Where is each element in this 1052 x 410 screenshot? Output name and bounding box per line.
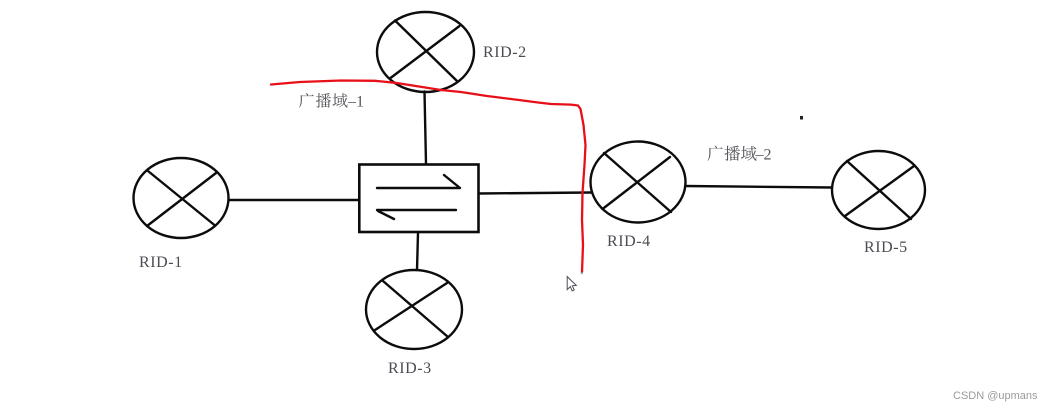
router RID-3 symbol xyxy=(366,270,462,349)
label broadcast domain 1 xyxy=(299,93,364,110)
wire SW1 to RID-4 xyxy=(479,193,592,194)
svg-text:RID-2: RID-2 xyxy=(483,44,527,61)
switch SW1 box xyxy=(359,165,478,233)
red broadcast-domain boundary line xyxy=(271,81,586,273)
svg-text:–1: –1 xyxy=(347,94,364,111)
svg-text:RID-5: RID-5 xyxy=(864,239,908,256)
router RID-1 symbol xyxy=(134,158,229,238)
wire RID-1 to SW1 xyxy=(229,199,359,201)
stray ink dot xyxy=(800,116,803,120)
wire RID-2 to SW1 xyxy=(425,92,427,165)
svg-text:RID-4: RID-4 xyxy=(607,233,651,250)
wire RID-4 to RID-5 xyxy=(685,186,832,188)
router RID-2 symbol xyxy=(377,12,474,92)
label broadcast domain 2 xyxy=(707,146,771,164)
mouse cursor xyxy=(567,277,576,291)
svg-text:CSDN @upmans: CSDN @upmans xyxy=(953,390,1038,402)
wire SW1 to RID-3 xyxy=(417,233,418,270)
svg-text:–2: –2 xyxy=(755,147,772,164)
red line end artifact xyxy=(581,273,584,275)
router RID-4 symbol xyxy=(591,142,686,223)
switch SW1 right arrow xyxy=(377,175,460,188)
svg-text:RID-3: RID-3 xyxy=(388,360,432,377)
router RID-5 symbol xyxy=(832,151,925,229)
svg-text:RID-1: RID-1 xyxy=(139,254,183,271)
switch SW1 left arrow xyxy=(377,210,456,219)
